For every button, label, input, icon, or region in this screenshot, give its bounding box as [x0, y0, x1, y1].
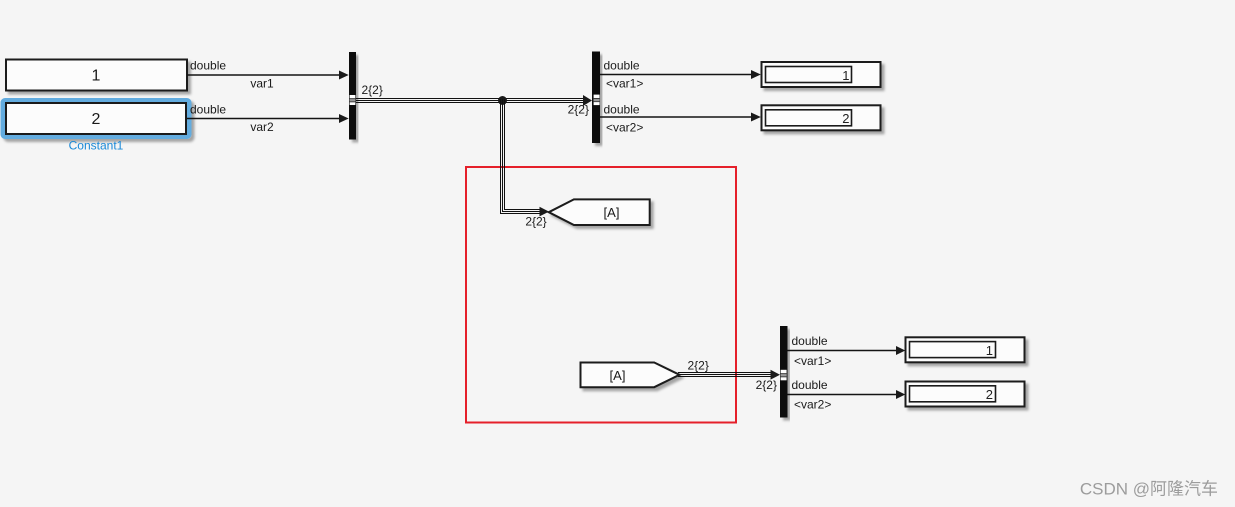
arrow into goto	[540, 207, 550, 217]
svg-text:double: double	[792, 378, 828, 392]
svg-text:2{2}: 2{2}	[756, 378, 777, 392]
bus creator bar	[349, 52, 356, 140]
wire var1	[187, 59, 349, 91]
svg-text:double: double	[604, 59, 640, 73]
display D1 (value 1, top)	[762, 62, 881, 87]
svg-text:[A]: [A]	[604, 205, 620, 220]
bus selector bar 2 (bottom)	[780, 326, 788, 418]
bus wire creator to selector	[356, 99, 585, 103]
svg-text:double: double	[190, 103, 226, 117]
display D4 (value 2, bottom)	[906, 382, 1025, 407]
svg-text:2{2}: 2{2}	[362, 83, 383, 97]
svg-text:var1: var1	[250, 77, 274, 91]
goto block [A]	[549, 199, 650, 225]
display D2 (value 2, top)	[762, 105, 881, 130]
constant C2 "Constant1" (value 2)	[6, 103, 186, 134]
wire var2	[187, 103, 349, 135]
svg-text:2: 2	[842, 111, 849, 126]
svg-text:CSDN @阿隆汽车: CSDN @阿隆汽车	[1080, 480, 1218, 499]
arrow into bus selector 1	[583, 95, 592, 106]
svg-text:1: 1	[842, 68, 849, 83]
selector1 output var1	[600, 59, 761, 91]
svg-text:2{2}: 2{2}	[568, 103, 589, 117]
svg-text:2: 2	[986, 387, 993, 402]
bus selector bar 1 (top)	[592, 52, 600, 144]
svg-text:Constant1: Constant1	[69, 139, 124, 153]
selector2 output var2	[788, 378, 906, 412]
svg-text:var2: var2	[250, 120, 274, 134]
svg-text:<var2>: <var2>	[794, 398, 831, 412]
bus wire from From to selector2	[678, 373, 772, 377]
svg-text:<var1>: <var1>	[606, 77, 643, 91]
svg-text:[A]: [A]	[610, 368, 626, 383]
svg-text:double: double	[604, 103, 640, 117]
svg-text:double: double	[792, 334, 828, 348]
selection highlight of Constant1	[3, 101, 189, 137]
display D3 (value 1, bottom)	[906, 337, 1025, 362]
svg-text:<var1>: <var1>	[794, 354, 831, 368]
svg-text:2{2}: 2{2}	[525, 215, 546, 229]
junction node	[498, 96, 507, 105]
svg-text:1: 1	[986, 343, 993, 358]
constant block (value 1)	[6, 60, 187, 91]
svg-text:double: double	[190, 59, 226, 73]
from block [A]	[581, 363, 680, 388]
selector1 output var2	[600, 103, 761, 135]
selector2 output var1	[788, 334, 906, 368]
svg-text:1: 1	[92, 68, 101, 85]
arrow into bus selector 2	[771, 370, 781, 380]
svg-text:2: 2	[92, 111, 101, 128]
svg-text:2{2}: 2{2}	[688, 359, 709, 373]
svg-text:<var2>: <var2>	[606, 121, 643, 135]
bus branch down to Goto	[501, 99, 541, 214]
red annotation rectangle	[466, 167, 736, 423]
